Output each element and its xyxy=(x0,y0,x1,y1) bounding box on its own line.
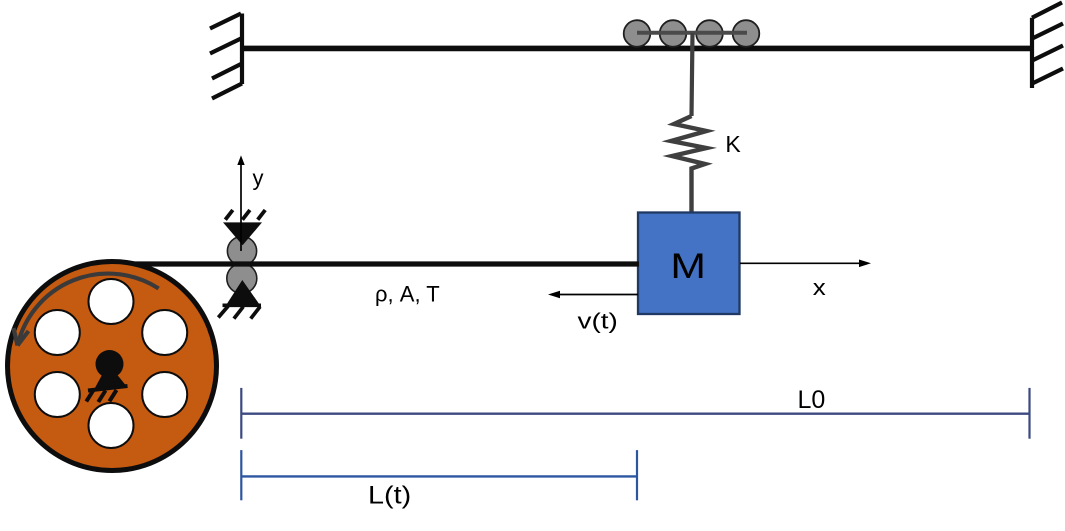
trolley roller 3 xyxy=(696,20,723,47)
hanger rod xyxy=(692,33,693,116)
upper pinch support hatching xyxy=(225,210,265,220)
lower pinch support hatching xyxy=(218,306,260,319)
trolley roller 2 xyxy=(660,20,687,47)
svg-text:K: K xyxy=(725,131,741,157)
trolley roller 1 xyxy=(624,20,651,47)
right wall support xyxy=(1032,3,1063,89)
svg-text:x: x xyxy=(813,276,826,301)
label L0 xyxy=(797,386,825,414)
upper pinch roller xyxy=(227,236,256,265)
rotation arrow xyxy=(14,274,159,346)
left wall support xyxy=(210,14,242,99)
svg-text:ρ, A, T: ρ, A, T xyxy=(375,282,440,307)
dimension L0 line xyxy=(241,388,1029,439)
label K xyxy=(725,131,741,157)
label rho, A, T xyxy=(375,282,440,307)
spool hole top xyxy=(89,279,134,324)
label L(t) xyxy=(368,481,411,509)
spool hole lower-right xyxy=(142,372,187,417)
spool hole upper-right xyxy=(142,310,187,355)
spool hole upper-left xyxy=(35,310,80,355)
spool hole lower-left xyxy=(35,372,80,417)
trolley bar through rollers xyxy=(637,31,747,35)
x axis arrow xyxy=(740,260,871,268)
rope xyxy=(120,261,639,266)
trolley roller 4 xyxy=(733,20,760,47)
label v(t) xyxy=(578,309,618,333)
upper pinch support triangle xyxy=(223,222,262,245)
lower pinch roller xyxy=(227,263,257,293)
spool hole bottom xyxy=(89,403,134,448)
label y xyxy=(253,166,264,191)
top beam xyxy=(241,46,1033,52)
spring K xyxy=(671,116,707,212)
hub pin xyxy=(96,350,124,378)
svg-text:L0: L0 xyxy=(797,386,825,414)
spool wheel xyxy=(8,262,217,471)
v(t) arrow xyxy=(548,291,638,299)
svg-text:M: M xyxy=(670,248,706,287)
label M xyxy=(670,248,706,287)
svg-text:y: y xyxy=(253,166,264,191)
svg-text:v(t): v(t) xyxy=(578,309,618,333)
label x xyxy=(813,276,826,301)
y axis arrow xyxy=(237,155,244,251)
hub pin support triangle xyxy=(88,362,128,391)
hub pin hatching xyxy=(86,390,116,402)
lower pinch support triangle xyxy=(223,280,262,305)
mass M block xyxy=(638,213,740,315)
svg-text:L(t): L(t) xyxy=(368,481,411,509)
dimension L(t) line xyxy=(241,450,637,500)
